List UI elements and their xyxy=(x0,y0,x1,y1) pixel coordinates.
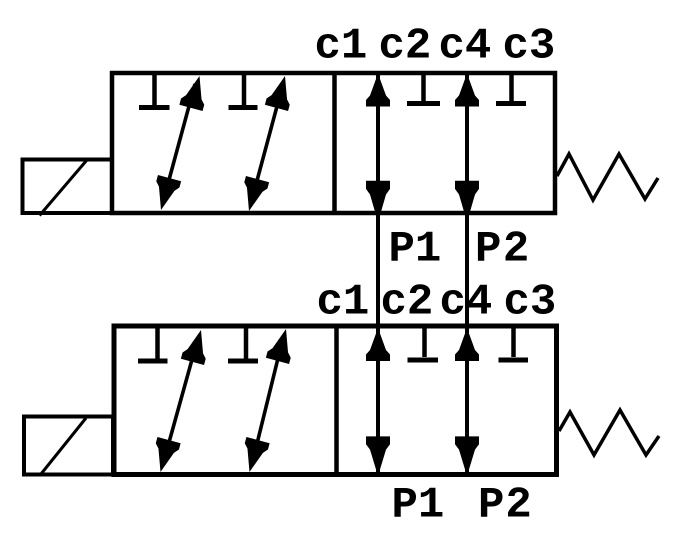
svg-text:c1: c1 xyxy=(317,278,370,328)
valve V1 position divider xyxy=(332,71,337,215)
svg-text:P1: P1 xyxy=(392,481,445,531)
svg-text:c2: c2 xyxy=(381,278,434,328)
spring SP1 xyxy=(557,154,658,200)
valve V1 blocked port T3 xyxy=(407,74,440,104)
svg-text:P2: P2 xyxy=(478,481,533,531)
svg-text:P2: P2 xyxy=(475,225,531,275)
valve V1 crossed flow arrow A1 xyxy=(149,73,211,213)
valve V2 blocked port T2 xyxy=(228,327,258,361)
valve V2 straight flow arrow V2b heads xyxy=(455,328,479,476)
solenoid S1 box xyxy=(23,160,113,214)
valve V2 crossed flow arrow A1 xyxy=(149,327,213,475)
svg-text:c2: c2 xyxy=(379,22,432,72)
valve V2 blocked port T4 xyxy=(499,327,529,360)
svg-text:c3: c3 xyxy=(504,278,557,328)
valve V1 straight flow arrow V1a heads xyxy=(366,74,390,223)
valve V2 straight flow arrow V2a heads xyxy=(366,328,390,476)
wire P2 net: vertical line through both valves xyxy=(465,75,469,474)
valve V2 blocked port T3 xyxy=(408,327,439,360)
svg-text:c4: c4 xyxy=(439,22,492,72)
valve V2 position divider xyxy=(334,324,339,476)
valve V2 blocked port T1 xyxy=(138,327,168,361)
spring SP2 xyxy=(559,410,659,455)
valve V2 body outline xyxy=(114,326,557,475)
valve V1 blocked port T4 xyxy=(496,74,526,104)
valve V1 crossed flow arrow A2 xyxy=(237,73,296,214)
svg-text:c1: c1 xyxy=(315,22,368,72)
solenoid S2 box xyxy=(24,417,113,475)
valve V2 crossed flow arrow A2 xyxy=(238,326,298,475)
solenoid S1 diagonal xyxy=(40,161,87,216)
valve V1 blocked port T1 xyxy=(139,74,170,108)
svg-text:P1: P1 xyxy=(389,225,442,275)
valve V1 straight flow arrow V1b heads xyxy=(455,74,479,223)
valve V1 blocked port T2 xyxy=(229,74,258,108)
svg-text:c4: c4 xyxy=(440,278,493,328)
valve V1 body outline xyxy=(112,73,555,213)
solenoid S2 diagonal xyxy=(41,418,86,474)
svg-text:c3: c3 xyxy=(503,22,556,72)
wire P1 net: vertical line through both valves xyxy=(376,75,380,474)
